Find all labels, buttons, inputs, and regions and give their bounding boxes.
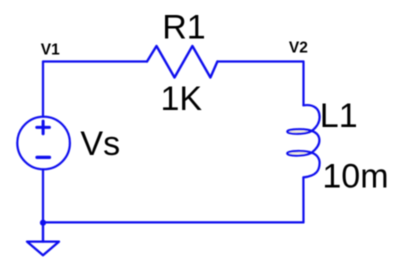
wire right rail upper [302,62,304,106]
inductor L1 coil [287,105,319,177]
plus sign of Vs [37,121,50,134]
inductor L1 loop2 interior tint [289,152,311,156]
wire bottom rail [43,221,304,223]
inductor L1 loop1 interior tint [289,130,311,134]
wire ground stub [42,222,44,241]
voltage source Vs circle [17,117,70,170]
resistor R1 [147,46,217,78]
minus sign of Vs [37,156,50,159]
svg-text:Vs: Vs [80,125,120,163]
wire top rail left segment [43,60,147,62]
svg-text:L1: L1 [320,97,358,135]
wire left rail upper [42,62,44,117]
svg-text:V2: V2 [289,39,308,56]
svg-text:10m: 10m [322,158,388,196]
svg-text:R1: R1 [162,8,205,46]
wire right rail lower [302,177,304,222]
ground symbol [27,242,59,256]
svg-text:V1: V1 [41,41,60,58]
svg-text:1K: 1K [161,80,203,118]
wire top rail right segment [217,60,303,62]
junction node dot [40,220,46,226]
wire left rail lower [42,169,44,241]
